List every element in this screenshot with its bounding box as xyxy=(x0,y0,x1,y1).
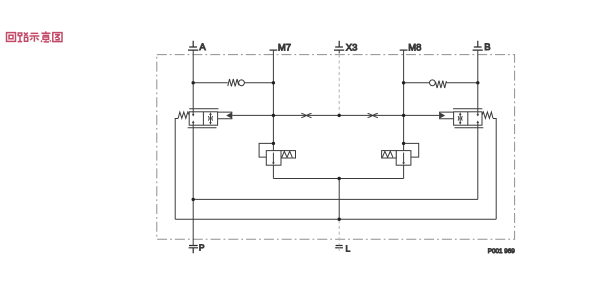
图 xyxy=(53,33,62,42)
port M8 symbol xyxy=(400,49,408,51)
svg-text:A: A xyxy=(199,42,206,53)
wire B-line lower (valve V2 to P gallery) xyxy=(477,125,479,199)
wire M7-line (port M7 to relief valve RV1) xyxy=(272,50,274,151)
RV2 flow arrow xyxy=(402,153,405,165)
port A symbol xyxy=(188,41,198,50)
port X3 symbol xyxy=(334,41,344,50)
wire L lower (dashed to port L) xyxy=(338,220,340,245)
V2 spring drain wire xyxy=(493,119,496,220)
V1 blocked arrows on A-line xyxy=(192,112,195,125)
svg-text:L: L xyxy=(346,244,351,254)
wire A to M7 (check line) xyxy=(193,82,273,84)
V2 blocked arrows on B-line xyxy=(477,112,480,125)
wire M8 to B (check line) xyxy=(404,82,478,84)
orifice restrictor left xyxy=(301,113,311,117)
RV1 flow arrow xyxy=(272,153,275,165)
wire M8-line (port M8 to relief valve RV2) xyxy=(403,50,405,151)
V2 flow arrow with throttle xyxy=(458,112,462,124)
wire A-line upper (port A to valve V1) xyxy=(192,50,194,112)
示 xyxy=(29,33,39,41)
relief outlet gallery xyxy=(273,178,403,180)
svg-text:M7: M7 xyxy=(278,42,291,53)
路 xyxy=(18,33,28,42)
wire X3 pilot line (dashed) xyxy=(338,50,340,53)
svg-text:P001 969: P001 969 xyxy=(488,248,515,255)
enclosure border (valve block) xyxy=(157,55,515,240)
junction dots xyxy=(192,81,480,221)
V1 flow arrow with throttle xyxy=(208,112,212,124)
回 xyxy=(7,33,16,42)
port M7 symbol xyxy=(270,49,278,51)
central pilot line xyxy=(232,114,439,116)
port L symbol xyxy=(335,246,343,248)
proportional throttle valve V2 (B side) xyxy=(453,109,483,128)
V1 spring drain wire xyxy=(175,119,178,220)
svg-text:P: P xyxy=(199,242,205,252)
V2 spring xyxy=(482,112,493,118)
title 回路示意图 xyxy=(7,31,63,42)
orifice restrictor right xyxy=(368,113,378,117)
relief valve RV1 body xyxy=(266,151,295,166)
svg-text:M8: M8 xyxy=(408,42,421,53)
svg-text:X3: X3 xyxy=(346,42,358,53)
relief valve RV1 (M7 side) pilot loop xyxy=(259,143,273,157)
wire B-line upper (port B to valve V2) xyxy=(477,50,479,112)
relief valve RV2 body xyxy=(382,151,411,166)
port P symbol xyxy=(189,246,198,254)
port B symbol xyxy=(473,41,483,50)
wire A-line lower (valve V1 to port P) xyxy=(192,125,194,245)
relief valve RV2 (M8 side) pilot loop xyxy=(404,143,419,157)
wire L riser (gallery to drain gallery) xyxy=(338,179,340,220)
wire M8-line below RV2 xyxy=(403,165,405,178)
V2 pilot channel and arrow xyxy=(439,112,454,119)
drain gallery (springs and L) xyxy=(175,218,496,220)
V1 spring xyxy=(178,112,189,118)
wire M7-line below RV1 xyxy=(272,165,274,178)
意 xyxy=(41,31,51,42)
proportional throttle valve V1 (A side) xyxy=(188,109,219,128)
V1 pilot channel and arrow xyxy=(218,112,233,119)
svg-text:B: B xyxy=(484,42,490,53)
check valve ball+spring (B side) xyxy=(430,80,447,88)
P gallery (valve bottoms to port P) xyxy=(193,198,478,200)
check valve spring+ball (A side) xyxy=(228,79,245,86)
